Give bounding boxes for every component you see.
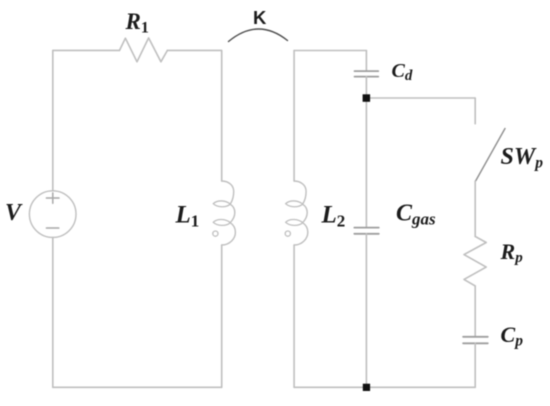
wire left-loop top (source to R1) (53, 49, 120, 51)
coupling arc K (229, 29, 288, 42)
L2 loop lens 1 (286, 201, 303, 207)
node A junction square (363, 94, 371, 102)
voltage source V circle (29, 191, 76, 238)
wire top to Cd (365, 51, 367, 72)
inductor L2 coil arcs (294, 181, 308, 245)
L1 loop lens 2 (213, 220, 230, 226)
capacitor Cd (355, 71, 379, 77)
inductor L1 coil arcs (222, 181, 236, 245)
wire left-loop bottom (53, 386, 222, 388)
wire left-loop left lower (below source) (52, 237, 54, 387)
svg-text:L1: L1 (175, 201, 200, 230)
resistor R1 (120, 38, 168, 62)
wire node A to right branch (366, 97, 475, 99)
capacitor Cgas (354, 228, 379, 234)
svg-text:K: K (253, 7, 267, 28)
wire left-loop left upper (above source) (52, 50, 54, 190)
L2 polarity dot (285, 231, 290, 236)
wire Cgas to bottom node (365, 234, 367, 387)
L2 loop lens 2 (286, 220, 303, 226)
wire Cd to node A (365, 77, 367, 98)
svg-text:R1: R1 (125, 9, 149, 37)
wire L1 down to bottom-right corner of left loop (221, 245, 223, 387)
wire Rp to Cp (474, 286, 476, 337)
wire right-loop bottom (294, 386, 475, 388)
wire switch to Rp (474, 181, 476, 236)
svg-text:SWp: SWp (501, 144, 544, 172)
wire L2 down to bottom-left corner of right loop (293, 245, 295, 387)
svg-text:Cd: Cd (392, 60, 413, 84)
wire right-loop top-left down to L2 (293, 51, 295, 182)
svg-text:V: V (5, 200, 23, 226)
bottom node junction square (363, 384, 370, 391)
voltage source minus sign (46, 227, 58, 229)
wire node A to middle branch down through Cgas top (365, 98, 367, 227)
capacitor Cp (463, 337, 488, 344)
L1 loop lens 1 (213, 201, 230, 207)
resistor Rp (464, 236, 486, 286)
svg-text:Rp: Rp (500, 239, 524, 266)
wire right branch upper (to switch) (474, 98, 476, 124)
svg-text:Cgas: Cgas (396, 201, 436, 229)
wire Cp to bottom-right corner (474, 343, 476, 387)
wire R1 to top-right corner and down to L1 (167, 50, 221, 181)
wire right-loop top (294, 50, 366, 52)
L1 polarity dot (213, 231, 218, 236)
svg-text:Cp: Cp (501, 322, 524, 350)
voltage source plus sign (46, 193, 59, 203)
svg-text:L2: L2 (321, 201, 346, 230)
switch SWp blade (476, 129, 505, 182)
